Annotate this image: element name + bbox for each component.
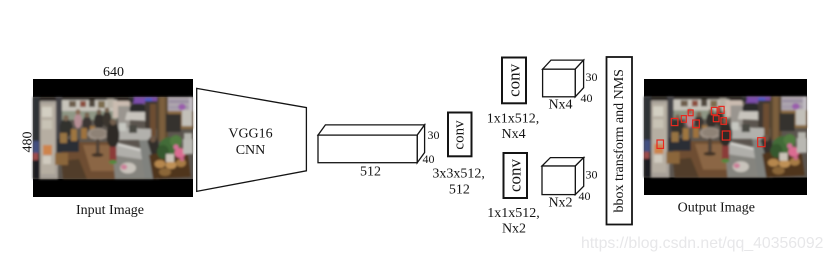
output image photo (644, 97, 807, 178)
conv box bottom branch (504, 153, 528, 198)
svg-text:CNN: CNN (236, 143, 266, 158)
svg-text:40: 40 (581, 91, 593, 105)
bbox transform and NMS box (607, 57, 633, 225)
svg-text:Output Image: Output Image (678, 201, 755, 216)
svg-text:conv: conv (506, 158, 525, 192)
svg-text:Nx2: Nx2 (502, 222, 526, 237)
feature map cuboid 512x30x40 (318, 125, 425, 163)
svg-text:Nx2: Nx2 (548, 196, 572, 211)
svg-text:30: 30 (586, 70, 598, 84)
svg-text:Input Image: Input Image (76, 203, 144, 218)
output image black frame (644, 79, 807, 195)
conv box top branch (502, 58, 526, 104)
detection boxes (red) (657, 106, 765, 148)
input image photo (33, 97, 193, 179)
svg-text:Nx4: Nx4 (548, 98, 572, 113)
svg-text:30: 30 (428, 128, 440, 142)
svg-text:512: 512 (449, 183, 470, 198)
VGG16 CNN trapezoid (197, 88, 307, 191)
svg-text:1x1x512,: 1x1x512, (487, 206, 540, 221)
svg-text:conv: conv (505, 63, 524, 97)
svg-text:VGG16: VGG16 (228, 127, 272, 142)
svg-text:30: 30 (586, 168, 598, 182)
svg-text:40: 40 (579, 189, 591, 203)
svg-text:https://blog.csdn.net/qq_40356: https://blog.csdn.net/qq_40356092 (581, 235, 823, 252)
svg-text:Nx4: Nx4 (502, 127, 526, 142)
cube Nx2 (542, 158, 584, 195)
svg-text:512: 512 (360, 165, 381, 180)
svg-text:bbox transform and NMS: bbox transform and NMS (612, 69, 627, 213)
input image black frame (33, 79, 193, 197)
conv box 3x3 (448, 113, 472, 157)
svg-text:480: 480 (21, 132, 36, 153)
svg-text:40: 40 (423, 152, 435, 166)
svg-text:3x3x512,: 3x3x512, (432, 167, 485, 182)
cube Nx4 (543, 60, 584, 97)
svg-text:1x1x512,: 1x1x512, (487, 112, 540, 127)
svg-text:conv: conv (452, 120, 468, 150)
svg-text:640: 640 (103, 65, 124, 80)
